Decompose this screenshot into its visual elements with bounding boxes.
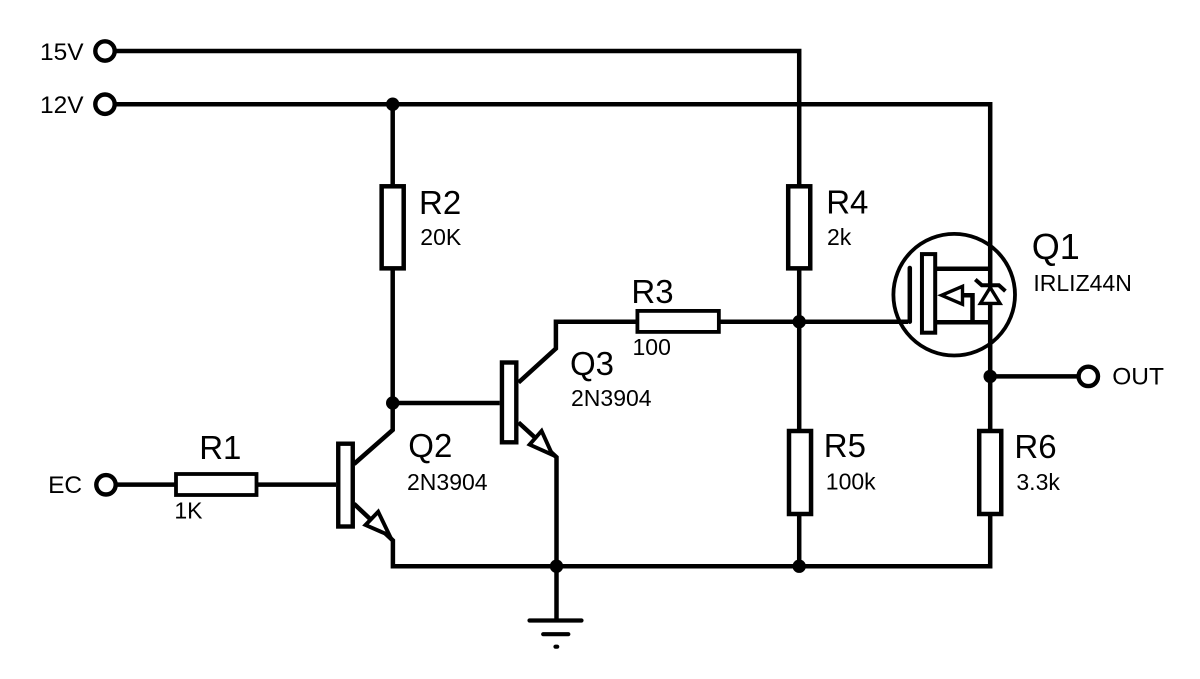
svg-text:20K: 20K <box>420 224 462 250</box>
svg-text:2N3904: 2N3904 <box>407 469 488 495</box>
svg-text:1K: 1K <box>174 497 203 523</box>
svg-text:EC: EC <box>48 472 82 499</box>
svg-text:IRLIZ44N: IRLIZ44N <box>1033 270 1131 296</box>
svg-text:Q2: Q2 <box>408 427 452 464</box>
svg-text:2k: 2k <box>827 224 852 250</box>
svg-text:Q1: Q1 <box>1032 226 1080 267</box>
svg-text:100: 100 <box>633 334 671 360</box>
svg-text:R2: R2 <box>419 184 461 221</box>
svg-text:100k: 100k <box>826 468 876 494</box>
svg-text:3.3k: 3.3k <box>1016 469 1060 495</box>
svg-text:R4: R4 <box>826 183 868 220</box>
svg-text:R3: R3 <box>631 273 673 310</box>
svg-text:R5: R5 <box>824 427 866 464</box>
svg-text:2N3904: 2N3904 <box>571 385 652 411</box>
svg-text:12V: 12V <box>40 92 84 119</box>
svg-text:Q3: Q3 <box>570 345 614 382</box>
svg-text:15V: 15V <box>40 39 84 66</box>
svg-text:R6: R6 <box>1014 428 1056 465</box>
svg-text:R1: R1 <box>199 429 241 466</box>
svg-text:OUT: OUT <box>1112 363 1164 390</box>
